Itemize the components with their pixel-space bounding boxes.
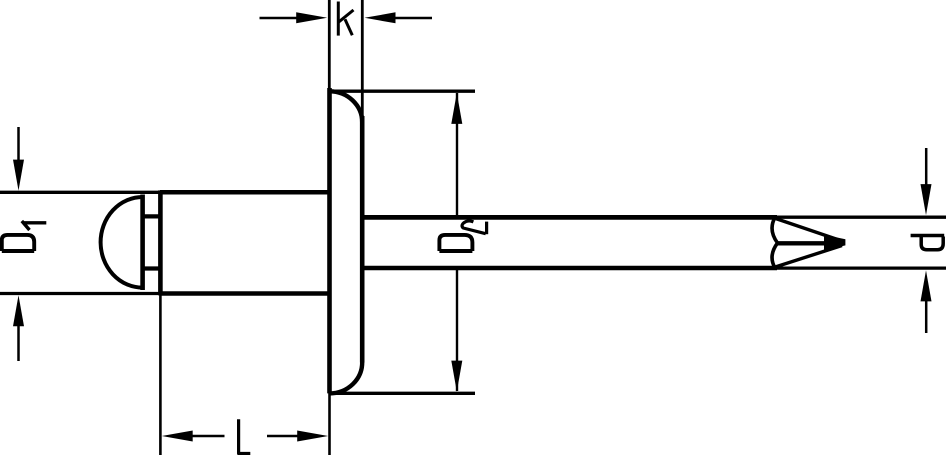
mandrel stem bottom outline (after break, thin) — [776, 266, 946, 269]
L arrowhead right (points right) — [297, 431, 328, 442]
D2 arrowhead top (points up) — [451, 93, 462, 124]
mandrel stem bottom outline (before break) — [362, 266, 777, 271]
L dimension line right segment — [267, 435, 299, 438]
mandrel break-point curve — [772, 217, 777, 268]
flange bottom arc — [330, 362, 363, 393]
subscript 2 — [462, 221, 486, 234]
k dimension line right tail — [394, 17, 432, 20]
D1 dimension line bottom tail — [17, 324, 20, 361]
flange top arc — [330, 91, 363, 122]
L extension line left — [159, 295, 162, 455]
mandrel stem top outline (after break, thin) — [776, 216, 946, 219]
mandrel head flat side — [140, 195, 145, 291]
k arrowhead right (points left) — [365, 12, 396, 23]
mandrel tip V lower diagonal — [776, 246, 842, 267]
rivet body top outline — [160, 190, 331, 195]
mandrel head dome arc — [101, 197, 143, 288]
label k — [338, 2, 353, 36]
mandrel stem tick bottom — [143, 266, 161, 270]
D2 extension line bottom — [330, 392, 476, 395]
D1 dimension line top tail — [17, 127, 20, 162]
label d (rotated) — [911, 236, 945, 250]
mandrel tip apex fill — [824, 235, 845, 251]
label D1 (rotated) : letter D — [2, 221, 47, 251]
D2 dimension line upper segment — [456, 93, 458, 216]
mandrel tip center line — [778, 241, 833, 245]
D1 arrowhead bottom (points up) — [13, 295, 24, 326]
label D2 (rotated) : letter D — [439, 221, 486, 251]
D2 dimension line lower segment — [456, 266, 458, 391]
D1 arrowhead top (points down) — [13, 160, 24, 191]
rivet body end face — [158, 190, 163, 295]
mandrel stem tick top (between dome and body face) — [143, 214, 161, 218]
d dimension line bottom tail — [925, 300, 928, 333]
d arrowhead top (points down) — [921, 184, 932, 215]
flange right edge + k extension (x=362.2) — [361, 0, 364, 118]
D1 extension line bottom — [0, 292, 161, 295]
L dimension line left segment — [191, 435, 225, 438]
mandrel tip V upper diagonal — [776, 219, 842, 241]
rivet body bottom outline — [160, 291, 331, 296]
k arrowhead left (points right) — [296, 12, 327, 23]
subscript 1 — [23, 221, 47, 224]
D2 extension line top — [330, 89, 476, 92]
D2 arrowhead bottom (points down) — [451, 361, 462, 392]
mandrel stem top outline (before break) — [362, 215, 777, 220]
L arrowhead left (points left) — [162, 431, 193, 442]
d dimension line top tail — [925, 148, 928, 186]
k dimension line left tail — [260, 17, 299, 20]
flange left edge + k extension + L extension (x=329.5) — [328, 0, 331, 90]
D1 extension line top — [0, 191, 161, 194]
label L — [239, 419, 251, 453]
d arrowhead bottom (points up) — [921, 270, 932, 301]
